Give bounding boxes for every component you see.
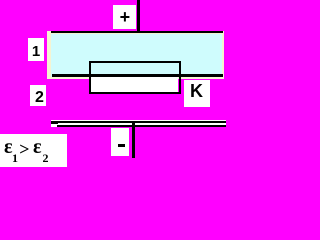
dielectric slab 2 outline rectangle (89, 61, 181, 95)
bottom capacitor plate upper line (51, 121, 226, 123)
label 2 box (30, 85, 46, 106)
label 1 box (28, 38, 43, 61)
dielectric slab 2 (white fill below boundary) (91, 77, 178, 91)
label K box (184, 80, 211, 107)
wire from + terminal to top plate (137, 0, 140, 32)
boundary line between dielectric 1 and dielectric 2 (52, 74, 224, 77)
+ terminal label box (113, 5, 136, 29)
wire from bottom plate to - terminal (132, 122, 135, 159)
minus glyph (118, 144, 124, 148)
caption text e1 > e2 (0, 134, 67, 167)
caption panel (0, 134, 67, 167)
top capacitor plate (51, 31, 223, 34)
- terminal label box (111, 128, 129, 156)
bottom capacitor plate lower line (57, 125, 226, 127)
bottom plate merged left end (51, 121, 58, 124)
bottom plate white gap strip (51, 120, 226, 127)
pale edge frame around dielectric slab 1 (47, 31, 224, 79)
dielectric slab 1 (cyan, permittivity e1) (51, 34, 222, 77)
